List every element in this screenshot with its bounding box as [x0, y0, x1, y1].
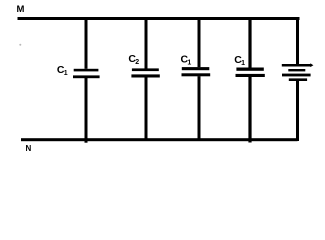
svg-text:N: N — [26, 144, 32, 153]
wire branch4 bottom — [248, 77, 251, 143]
wire top bus — [18, 17, 300, 20]
stray mark — [19, 44, 21, 46]
wire branch1 bottom — [85, 78, 88, 143]
svg-text:M: M — [17, 4, 25, 15]
wire branch3 bottom — [198, 76, 201, 141]
svg-text:2: 2 — [135, 59, 139, 66]
label C2 — [128, 53, 139, 66]
capacitor C1 (branch4) — [236, 68, 265, 78]
svg-text:1: 1 — [187, 59, 191, 66]
label C1 (branch3) — [181, 53, 192, 66]
label C1 (branch1) — [57, 64, 68, 77]
wire branch4 top — [248, 17, 251, 68]
wire branch5 (battery) top — [296, 17, 299, 65]
svg-text:1: 1 — [241, 60, 245, 67]
svg-text:1: 1 — [64, 70, 68, 77]
wire branch2 bottom — [145, 77, 148, 141]
battery B1 — [282, 63, 314, 81]
capacitor C1 (branch1) — [73, 69, 100, 78]
wire bottom bus — [21, 138, 298, 141]
capacitor C1 (branch3) — [182, 67, 211, 76]
capacitor C2 (branch2) — [131, 68, 159, 77]
label C1 (branch4) — [234, 54, 245, 67]
wire branch3 top — [198, 17, 201, 67]
wire branch2 top — [145, 17, 148, 69]
wire branch1 top — [85, 17, 88, 69]
wire branch5 (battery) bottom — [296, 80, 299, 141]
